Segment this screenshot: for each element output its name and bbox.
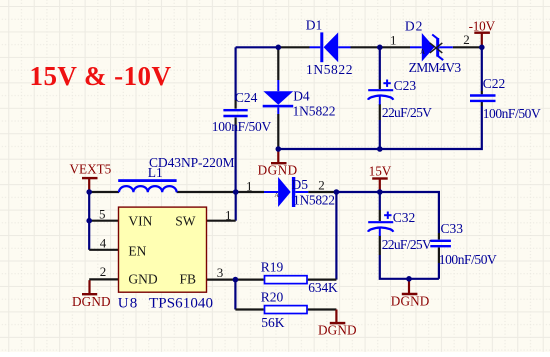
- svg-text:U8: U8: [118, 296, 138, 312]
- svg-text:2: 2: [318, 178, 325, 193]
- svg-text:100nF/50V: 100nF/50V: [439, 252, 497, 267]
- svg-text:C22: C22: [483, 76, 506, 91]
- svg-text:R19: R19: [261, 259, 284, 274]
- svg-text:15V & -10V: 15V & -10V: [30, 61, 172, 91]
- svg-text:GND: GND: [128, 272, 157, 287]
- svg-text:C32: C32: [393, 210, 416, 225]
- svg-text:1: 1: [246, 179, 253, 194]
- svg-text:2: 2: [463, 32, 470, 47]
- svg-text:3: 3: [217, 265, 224, 280]
- svg-text:DGND: DGND: [391, 294, 430, 309]
- svg-text:1: 1: [225, 207, 232, 222]
- svg-text:C24: C24: [235, 90, 258, 105]
- svg-text:A: A: [274, 192, 279, 199]
- svg-text:15V: 15V: [369, 163, 392, 178]
- svg-text:5: 5: [99, 206, 106, 221]
- svg-text:FB: FB: [180, 272, 197, 287]
- svg-text:C23: C23: [394, 78, 417, 93]
- svg-text:SW: SW: [175, 214, 196, 229]
- svg-text:2: 2: [100, 264, 107, 279]
- svg-text:1: 1: [390, 32, 397, 47]
- svg-text:D1: D1: [306, 17, 323, 32]
- svg-text:100nF/50V: 100nF/50V: [212, 119, 272, 134]
- svg-text:VIN: VIN: [128, 214, 152, 229]
- svg-text:1N5822: 1N5822: [293, 103, 336, 118]
- svg-text:1N5822: 1N5822: [306, 62, 353, 77]
- svg-text:R20: R20: [261, 289, 284, 304]
- svg-text:A: A: [420, 48, 425, 56]
- svg-text:D4: D4: [293, 89, 310, 104]
- svg-text:D5: D5: [292, 177, 309, 192]
- svg-text:22uF/25V: 22uF/25V: [382, 105, 432, 120]
- svg-text:EN: EN: [128, 243, 146, 258]
- svg-text:TPS61040: TPS61040: [149, 296, 213, 312]
- svg-text:VEXT5: VEXT5: [70, 162, 112, 177]
- svg-text:634K: 634K: [308, 280, 338, 295]
- svg-text:4: 4: [100, 236, 107, 251]
- svg-text:L1: L1: [148, 165, 163, 180]
- svg-text:D2: D2: [405, 18, 423, 33]
- svg-text:1N5822: 1N5822: [293, 193, 335, 208]
- svg-text:DGND: DGND: [72, 294, 111, 309]
- svg-text:DGND: DGND: [318, 323, 357, 338]
- svg-text:56K: 56K: [261, 315, 285, 330]
- svg-text:100nF/50V: 100nF/50V: [483, 106, 541, 121]
- svg-text:22uF/25V: 22uF/25V: [382, 237, 432, 252]
- svg-text:ZMM4V3: ZMM4V3: [409, 60, 462, 75]
- svg-text:DGND: DGND: [258, 162, 298, 177]
- svg-text:C33: C33: [441, 221, 464, 236]
- svg-text:-10V: -10V: [469, 19, 496, 34]
